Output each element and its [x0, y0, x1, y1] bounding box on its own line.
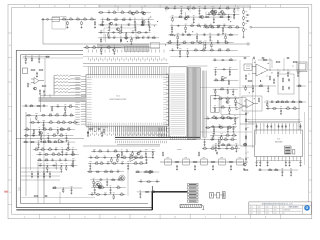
svg-text:xxxx: xxxx	[250, 213, 253, 215]
svg-text:xxxx: xxxx	[266, 210, 269, 212]
svg-text:xxxx: xxxx	[274, 207, 277, 209]
svg-text:xxxx: xxxx	[258, 213, 261, 215]
svg-text:G: G	[309, 192, 311, 194]
svg-text:M37220M3-167SP: M37220M3-167SP	[110, 99, 127, 101]
svg-text:SCH 2/2: SCH 2/2	[285, 210, 290, 212]
svg-text:G: G	[306, 206, 309, 210]
svg-text:xxxx: xxxx	[258, 207, 261, 209]
svg-text:xxxx: xxxx	[266, 207, 269, 209]
svg-text:xxxx: xxxx	[282, 213, 285, 215]
svg-text:G: G	[9, 192, 11, 194]
svg-text:xxxx: xxxx	[250, 207, 253, 209]
svg-text:IC4: IC4	[277, 139, 280, 141]
svg-text:xxxx: xxxx	[258, 210, 261, 212]
svg-text:xxxx: xxxx	[274, 210, 277, 212]
svg-text:TIGER-SHING ELECTRONICS CO., L: TIGER-SHING ELECTRONICS CO., LTD	[262, 203, 294, 205]
svg-text:xxxx: xxxx	[266, 213, 269, 215]
svg-text:xxxx: xxxx	[274, 213, 277, 215]
svg-text:xxxx: xxxx	[282, 207, 285, 209]
svg-text:xxxx: xxxx	[250, 210, 253, 212]
